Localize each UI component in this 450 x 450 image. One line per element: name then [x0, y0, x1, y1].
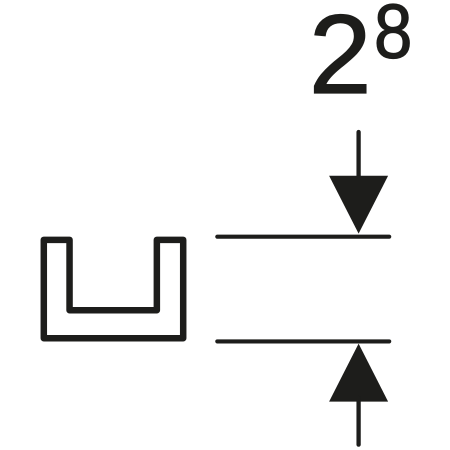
dimension arrow up (head) — [329, 344, 388, 402]
svg-text:2: 2 — [309, 0, 372, 117]
dimension arrow down (head) — [329, 176, 388, 234]
U-channel profile cross-section — [44, 240, 183, 338]
dimension arrow up (leader line) — [356, 398, 360, 445]
dimension arrow down (leader line) — [356, 132, 360, 185]
extension line bottom — [217, 339, 389, 343]
extension line top — [217, 235, 389, 239]
svg-text:8: 8 — [374, 0, 412, 75]
